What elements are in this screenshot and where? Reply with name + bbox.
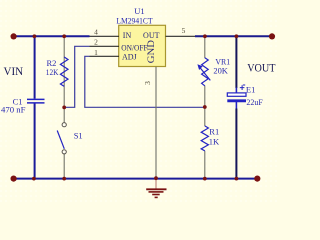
resistor R1 leads [204, 107, 206, 178]
wire top rail VIN to IC pin4 [16, 35, 90, 37]
junction C1 bottom [32, 177, 36, 181]
wire C1 branch lower [34, 104, 36, 179]
junction R1 bottom [203, 177, 207, 181]
svg-text:1K: 1K [209, 137, 220, 147]
capacitor E1 top pin stub [235, 88, 237, 93]
pin 3 (GND) stub down to ground rail [155, 67, 157, 179]
svg-text:12K: 12K [46, 67, 59, 77]
capacitor C1 plates [27, 99, 45, 103]
wire OUT to VOUT rail [195, 35, 273, 37]
wire net ON/OFF: R2/S1 junction to IC pin2 [64, 46, 89, 107]
pin 5 (OUT) [166, 35, 196, 37]
svg-text:4: 4 [94, 28, 98, 37]
pin 1 (ADJ) [90, 55, 120, 57]
node VOUT endpoint dot [269, 33, 275, 39]
wire E1 branch lower [235, 109, 237, 179]
pin 2 (ON/OFF) [90, 45, 120, 47]
wire net ADJ: IC pin1 to VR1/R1 junction [85, 56, 205, 107]
svg-text:OUT: OUT [143, 31, 160, 40]
svg-text:ON/OFF: ON/OFF [121, 43, 148, 52]
resistor R1 zigzag [201, 126, 208, 151]
switch S1 bottom terminal [62, 150, 66, 154]
wire bottom ground rail [16, 178, 258, 180]
op-amp U1 regulator body LM2941CT [119, 25, 166, 66]
node bottom-right endpoint dot [254, 176, 260, 182]
pin 4 (IN) [90, 35, 120, 37]
junction R2/S1/pin2 [62, 106, 66, 110]
svg-text:2: 2 [94, 38, 98, 47]
VR1 wiper arrow [200, 67, 211, 80]
svg-text:VIN: VIN [4, 66, 24, 78]
resistor R2 leads [63, 37, 65, 107]
junction C1 top [33, 34, 37, 38]
svg-text:20K: 20K [213, 66, 228, 76]
svg-text:5: 5 [182, 26, 186, 35]
svg-text:VOUT: VOUT [247, 62, 275, 74]
svg-text:E1: E1 [246, 84, 255, 94]
junction E1 top [235, 34, 239, 38]
svg-text:LM2941CT: LM2941CT [116, 16, 153, 26]
junction VR1 top [203, 34, 207, 38]
junction R2 top [62, 34, 66, 38]
junction E1 bottom [235, 177, 239, 181]
svg-text:GND: GND [146, 40, 157, 63]
capacitor E1 positive plate (hollow) [227, 93, 246, 96]
ground symbol [146, 179, 166, 198]
svg-text:ADJ: ADJ [122, 53, 137, 62]
junction S1 bottom [62, 177, 66, 181]
svg-text:1: 1 [94, 48, 98, 57]
switch S1 leads [63, 107, 65, 178]
svg-text:3: 3 [143, 81, 152, 85]
potentiometer VR1 leads [204, 37, 206, 107]
capacitor E1 bottom pin stub [235, 102, 237, 109]
E1 polarity plus mark [240, 85, 245, 90]
resistor R2 zigzag [60, 57, 68, 86]
svg-text:R1: R1 [209, 126, 219, 136]
junction ground stub [154, 176, 158, 180]
svg-text:IN: IN [123, 31, 132, 40]
wire E1 branch upper [235, 36, 237, 88]
switch S1 top terminal [62, 123, 66, 127]
capacitor E1 negative plate (solid) [227, 99, 246, 102]
switch S1 blade [57, 131, 64, 149]
svg-text:U1: U1 [134, 6, 144, 16]
svg-text:S1: S1 [74, 131, 83, 141]
svg-text:22uF: 22uF [246, 97, 263, 107]
node bottom-left endpoint dot [11, 176, 17, 182]
wire C1 branch upper [34, 36, 36, 98]
junction VR1/R1/ADJ [203, 105, 207, 109]
potentiometer VR1 zigzag [202, 58, 209, 86]
svg-text:470 nF: 470 nF [1, 104, 26, 114]
node VIN endpoint dot [11, 33, 17, 39]
